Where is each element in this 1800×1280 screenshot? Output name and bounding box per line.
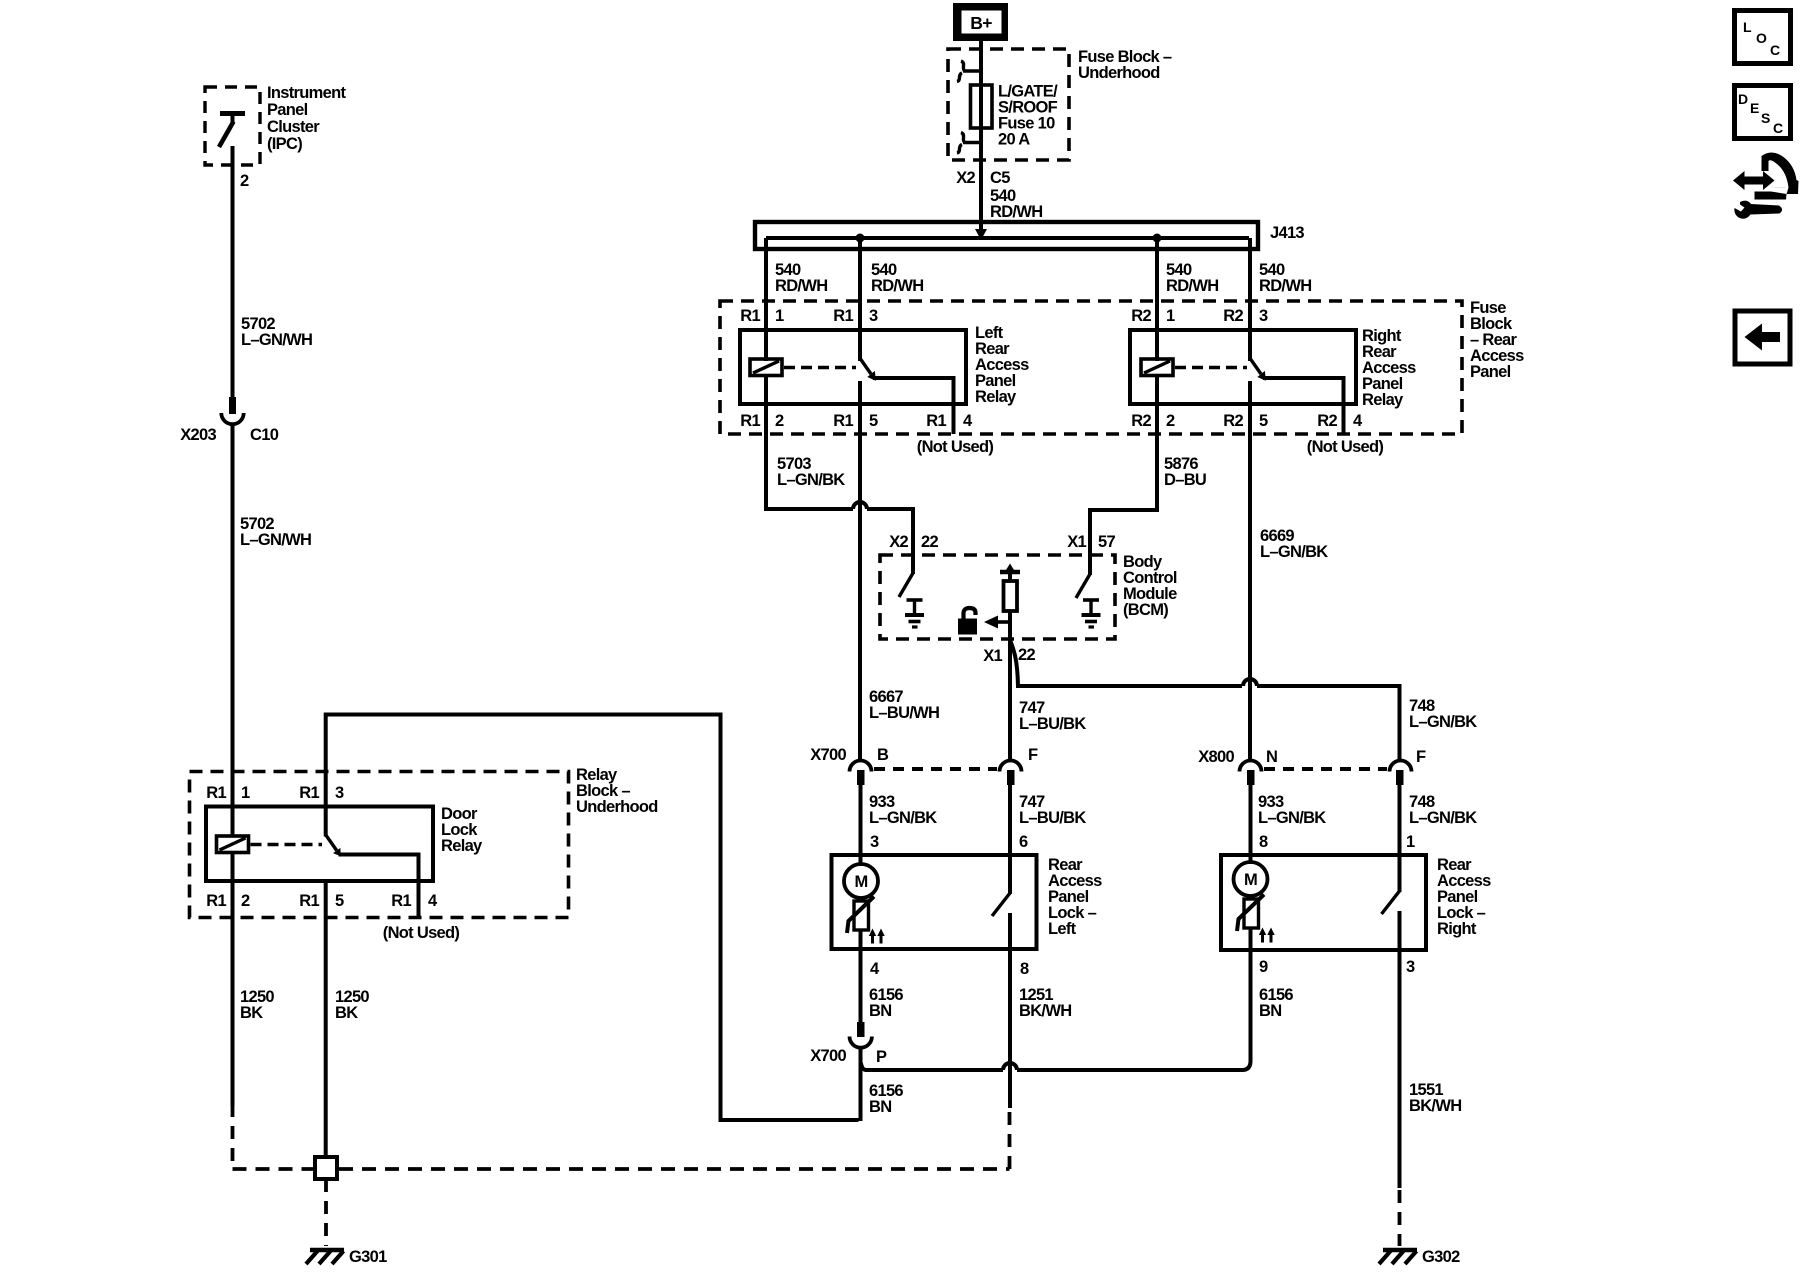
wire: J413 to right relay pin 1 (540 RD/WH) <box>1155 238 1159 361</box>
svg-text:Relay: Relay <box>1362 391 1404 409</box>
svg-text:(Not Used): (Not Used) <box>383 924 460 942</box>
dashed lead to ground G301 <box>324 1179 328 1246</box>
svg-text:L–BU/BK: L–BU/BK <box>1019 809 1086 827</box>
sidebar icon: DESC box <box>1735 86 1791 139</box>
svg-text:X800: X800 <box>1198 748 1234 766</box>
svg-text:1: 1 <box>241 784 250 802</box>
connector X800 dashed link N-F <box>1264 767 1387 771</box>
svg-text:X203: X203 <box>180 426 216 444</box>
ground G301 <box>306 1250 344 1264</box>
svg-text:C10: C10 <box>250 426 279 444</box>
wire: IPC pin 2 to X203 (5702 L-GN/WH) <box>231 146 235 398</box>
wire: right relay pin 5 to X800 N (6669 L-GN/BK) <box>1248 381 1252 760</box>
relay U1 switch blade <box>860 238 876 381</box>
fuse clip lower <box>957 133 981 154</box>
connector X800 cavity F <box>1390 761 1412 785</box>
body control module BCM (dashed box) <box>880 555 1115 639</box>
svg-text:2: 2 <box>241 892 250 910</box>
fuse clip upper <box>957 61 981 82</box>
svg-text:L–GN/WH: L–GN/WH <box>241 331 312 349</box>
svg-text:9: 9 <box>1259 958 1268 976</box>
svg-text:1: 1 <box>775 307 784 325</box>
svg-text:Relay: Relay <box>441 837 483 855</box>
wire: X700 F to lock switch (747 L-BU/BK) <box>1008 785 1012 894</box>
relay U2: right rear access panel relay box <box>1130 330 1356 404</box>
wire: 6156 branch over to right lock pin 9 with hop over 1251 <box>865 950 1251 1070</box>
svg-text:M: M <box>1244 871 1257 889</box>
svg-text:RD/WH: RD/WH <box>990 203 1042 221</box>
svg-text:C: C <box>1770 42 1780 58</box>
svg-text:G301: G301 <box>349 1248 387 1266</box>
svg-text:R1: R1 <box>833 412 853 430</box>
svg-text:R1: R1 <box>299 784 319 802</box>
svg-text:RD/WH: RD/WH <box>871 277 923 295</box>
BCM driver element (resistor with bar) <box>1000 564 1020 612</box>
svg-text:BK: BK <box>335 1004 358 1022</box>
junction dot on J413 at left relay pin 3 drop <box>856 234 865 243</box>
svg-text:5: 5 <box>869 412 878 430</box>
fuse block rear access panel (dashed box) <box>720 301 1462 434</box>
junction dot on J413 at right relay pin 1 drop <box>1153 234 1162 243</box>
left lock switch <box>992 893 1010 949</box>
BCM unlock output symbol (padlock with arrow) <box>958 608 1010 635</box>
relay U3 coil-contact dashed link <box>251 843 323 847</box>
svg-text:5: 5 <box>335 892 344 910</box>
svg-text:R2: R2 <box>1223 307 1243 325</box>
svg-text:R1: R1 <box>740 307 760 325</box>
svg-text:C5: C5 <box>990 169 1010 187</box>
svg-text:6: 6 <box>1019 833 1028 851</box>
svg-text:X1: X1 <box>1067 533 1086 551</box>
wire: BCM X1-22 down to X700 F (747 L-BU/BK) <box>1008 611 1012 760</box>
battery feed B+ <box>953 3 1008 41</box>
svg-text:Instrument: Instrument <box>267 84 346 102</box>
svg-text:(Not Used): (Not Used) <box>917 438 994 456</box>
svg-text:P: P <box>876 1048 887 1066</box>
svg-text:X2: X2 <box>956 169 975 187</box>
svg-text:L–GN/BK: L–GN/BK <box>1260 543 1328 561</box>
sidebar icon: back arrow box <box>1735 311 1790 364</box>
svg-text:BK/WH: BK/WH <box>1409 1097 1461 1115</box>
svg-text:BN: BN <box>869 1002 891 1020</box>
svg-text:R2: R2 <box>1131 412 1151 430</box>
wire: door relay pin 5 down to splice square (1250 BK) <box>324 881 328 1158</box>
svg-text:C: C <box>1773 120 1783 136</box>
svg-text:Relay: Relay <box>975 388 1017 406</box>
svg-text:Panel: Panel <box>267 101 308 119</box>
BCM internal switch at X2-22 <box>899 556 913 597</box>
connector X700 cavity B <box>850 761 872 785</box>
wire: right relay coil to pin 2 <box>1155 376 1159 407</box>
svg-text:R1: R1 <box>206 892 226 910</box>
wire: B+ to splice pack J413 <box>979 41 983 232</box>
svg-text:L–GN/BK: L–GN/BK <box>869 809 937 827</box>
splice square at G301 tap <box>315 1157 337 1179</box>
svg-text:3: 3 <box>1259 307 1268 325</box>
BCM internal ground (right) <box>1082 600 1101 627</box>
wire: X700 P down and branches (6156 BN) <box>861 1047 867 1121</box>
wire: BCM X1-22 branch to X800 F (748 L-GN/BK) with hop over 6669 <box>1010 640 1400 760</box>
svg-text:G302: G302 <box>1422 1248 1460 1266</box>
svg-text:L–GN/BK: L–GN/BK <box>777 471 845 489</box>
relay U1 coil-contact dashed link <box>784 366 856 370</box>
svg-text:RD/WH: RD/WH <box>1166 277 1218 295</box>
left lock double arrows <box>869 929 885 944</box>
wire: X800 F to right lock switch (748 L-GN/BK) <box>1398 785 1402 892</box>
wire: X700 B to lock motor (933 L-GN/BK) <box>859 785 863 866</box>
rear access panel lock left (box) <box>832 855 1037 949</box>
BCM internal ground (left) <box>905 600 924 627</box>
sidebar icon: wiring swap arrows with wrench <box>1733 152 1799 218</box>
relay U1 contact to pin 4 <box>873 378 954 434</box>
relay U1 coil <box>750 359 782 376</box>
svg-text:Underhood: Underhood <box>1078 64 1160 82</box>
svg-text:B+: B+ <box>970 13 992 33</box>
svg-text:3: 3 <box>869 307 878 325</box>
svg-text:N: N <box>1266 748 1277 766</box>
svg-text:X1: X1 <box>983 647 1002 665</box>
svg-text:2: 2 <box>240 172 249 190</box>
svg-text:L–GN/BK: L–GN/BK <box>1409 809 1477 827</box>
relay U1: left rear access panel relay box <box>740 330 966 404</box>
svg-text:3: 3 <box>335 784 344 802</box>
svg-text:Left: Left <box>1048 920 1077 938</box>
ground G302 <box>1379 1250 1417 1264</box>
svg-text:22: 22 <box>921 533 938 551</box>
sidebar icon: LOC box <box>1735 11 1791 64</box>
wire: J413 to right relay pin 3 (540 RD/WH) <box>1248 238 1252 361</box>
svg-text:2: 2 <box>775 412 784 430</box>
fuse F10 L/GATE S/ROOF 20A <box>971 85 993 128</box>
svg-text:R1: R1 <box>833 307 853 325</box>
wire: right lock pin 3 down (1551 BK/WH) <box>1398 950 1402 1188</box>
relay U2 coil-contact dashed link <box>1175 366 1247 370</box>
svg-text:8: 8 <box>1020 960 1029 978</box>
svg-text:L–GN/WH: L–GN/WH <box>240 531 311 549</box>
svg-text:D–BU: D–BU <box>1164 471 1206 489</box>
svg-text:X700: X700 <box>810 1047 846 1065</box>
wire: J413 to left relay pin 3 (540 RD/WH) <box>858 238 862 361</box>
relay U3 switch blade <box>326 807 341 857</box>
left lock motor M1 <box>844 864 878 898</box>
svg-text:R1: R1 <box>206 784 226 802</box>
relay U3 coil <box>217 836 249 853</box>
svg-text:Underhood: Underhood <box>576 798 658 816</box>
svg-text:B: B <box>877 746 889 764</box>
svg-text:R2: R2 <box>1131 307 1151 325</box>
svg-text:X700: X700 <box>810 746 846 764</box>
svg-text:1: 1 <box>1166 307 1175 325</box>
svg-text:R2: R2 <box>1223 412 1243 430</box>
svg-text:L: L <box>1743 19 1752 35</box>
svg-text:(Not Used): (Not Used) <box>1307 438 1384 456</box>
fuse block underhood (dashed box) <box>948 49 1069 160</box>
connector X700 cavity F <box>1000 761 1022 785</box>
connector X700 dashed link B-F <box>874 767 997 771</box>
right lock switch <box>1382 891 1400 950</box>
wire: door relay pin 2 down (1250 BK) <box>231 853 235 1107</box>
wire: left lock pin 8 down to ground rail (1251 BK/WH) <box>1008 948 1012 1108</box>
svg-text:22: 22 <box>1018 646 1035 664</box>
wire: door relay pin 3 loop up and over to X700 P (6156 BN) <box>326 715 859 1121</box>
svg-text:BK: BK <box>240 1004 263 1022</box>
BCM internal switch at X1-57 <box>1076 556 1090 598</box>
relay U2 switch blade <box>1251 359 1266 381</box>
svg-text:3: 3 <box>870 833 879 851</box>
dashed lead to ground G302 <box>1398 1190 1402 1246</box>
dashed ground rail: pin2 wire to G301 splice and over to 1251 wire <box>233 1104 1010 1169</box>
relay U2 coil <box>1141 359 1173 376</box>
svg-text:1: 1 <box>1406 833 1415 851</box>
svg-text:BN: BN <box>1259 1002 1281 1020</box>
svg-text:J413: J413 <box>1270 224 1304 242</box>
wire: J413 to left relay pin 1 (540 RD/WH) <box>764 238 768 361</box>
svg-text:F: F <box>1416 748 1426 766</box>
svg-text:F: F <box>1028 746 1038 764</box>
wire: left relay pin 2 to BCM X2-22 (5703 L-GN/BK) with hop over pin5 wire <box>766 404 913 556</box>
wire: left relay coil to pin 2 <box>764 376 768 407</box>
svg-text:RD/WH: RD/WH <box>1259 277 1311 295</box>
svg-text:D: D <box>1738 91 1748 107</box>
svg-text:BN: BN <box>869 1098 891 1116</box>
svg-text:L–GN/BK: L–GN/BK <box>1258 809 1326 827</box>
relay U3: door lock relay box <box>206 807 433 882</box>
svg-text:L–BU/WH: L–BU/WH <box>869 704 939 722</box>
svg-text:O: O <box>1756 30 1767 46</box>
svg-text:2: 2 <box>1166 412 1175 430</box>
left lock thermal element <box>847 897 874 950</box>
svg-text:57: 57 <box>1098 533 1115 551</box>
svg-text:5: 5 <box>1259 412 1268 430</box>
right lock motor M2 <box>1234 862 1268 896</box>
svg-text:RD/WH: RD/WH <box>775 277 827 295</box>
svg-text:(IPC): (IPC) <box>267 135 302 153</box>
rear access panel lock right (box) <box>1221 855 1426 950</box>
svg-text:R1: R1 <box>391 892 411 910</box>
svg-text:20 A: 20 A <box>998 131 1030 149</box>
svg-text:BK/WH: BK/WH <box>1019 1002 1071 1020</box>
relay U2 contact to pin 4 <box>1263 378 1344 434</box>
connector X203 C10 <box>221 397 243 424</box>
relay block underhood (dashed box) <box>190 772 569 918</box>
wire: left relay pin 5 to X700 B (6667 L-BU/WH) <box>858 381 862 760</box>
svg-text:E: E <box>1750 100 1759 116</box>
svg-text:M: M <box>854 873 867 891</box>
svg-text:R1: R1 <box>926 412 946 430</box>
connector X700 cavity P <box>850 1022 872 1048</box>
svg-text:R1: R1 <box>299 892 319 910</box>
svg-text:Cluster: Cluster <box>267 118 320 136</box>
svg-text:S: S <box>1761 110 1770 126</box>
svg-text:R2: R2 <box>1317 412 1337 430</box>
IPC switch symbol <box>219 114 245 148</box>
svg-text:8: 8 <box>1259 833 1268 851</box>
svg-text:Panel: Panel <box>1470 363 1511 381</box>
svg-text:(BCM): (BCM) <box>1123 601 1168 619</box>
svg-text:Right: Right <box>1437 920 1477 938</box>
svg-text:X2: X2 <box>889 533 908 551</box>
svg-text:R1: R1 <box>740 412 760 430</box>
connector X800 cavity N <box>1240 761 1262 785</box>
wire: X203 to door lock relay pin 1 (5702 L-GN/WH) <box>231 424 235 837</box>
right lock thermal element <box>1237 895 1264 951</box>
svg-text:L–GN/BK: L–GN/BK <box>1409 713 1477 731</box>
relay U3 contact to pin 4 <box>339 855 419 918</box>
wire: X800 N to right lock motor (933 L-GN/BK) <box>1249 785 1253 864</box>
instrument panel cluster (dashed box) <box>205 87 260 165</box>
splice pack J413 bus <box>755 222 1258 249</box>
right lock double arrows <box>1259 928 1275 943</box>
wire: left lock pin 4 to X700 P (6156 BN) <box>859 948 863 1023</box>
svg-text:L–BU/BK: L–BU/BK <box>1019 715 1086 733</box>
svg-text:3: 3 <box>1406 958 1415 976</box>
wire: right relay pin 2 to BCM X1-57 (5876 D-BU) <box>1090 404 1157 556</box>
